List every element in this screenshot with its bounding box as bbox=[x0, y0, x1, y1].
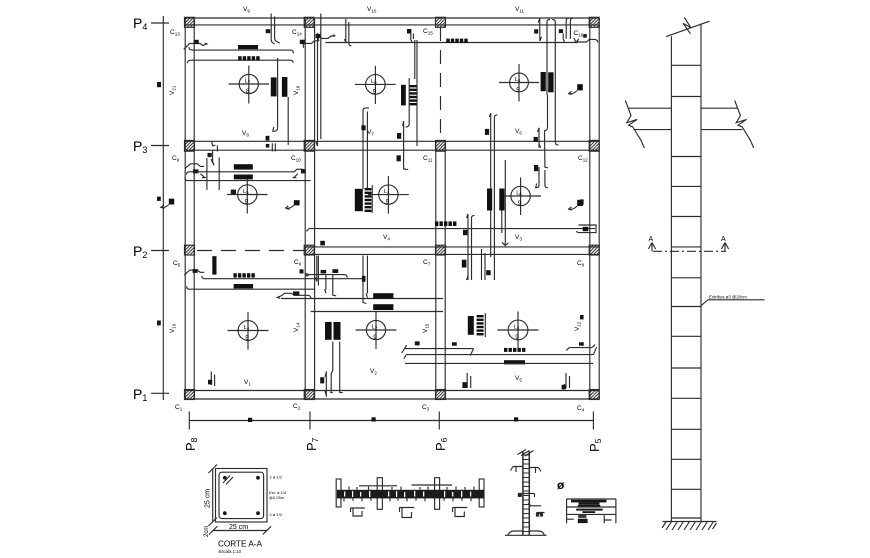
column C11 bbox=[423, 140, 446, 162]
svg-text:V14: V14 bbox=[293, 322, 301, 332]
bay P8-P7/P2-P1 rebar group bbox=[184, 256, 443, 386]
column elevation left chord bbox=[670, 36, 672, 521]
svg-text:8: 8 bbox=[246, 88, 250, 95]
bay P7-P6/P2-P1 rebar group bbox=[300, 241, 444, 397]
corte A-A dimension 25cm vertical bbox=[205, 465, 218, 527]
slab label L5/9 bbox=[227, 176, 268, 214]
column C7 bbox=[423, 245, 446, 266]
svg-text:A: A bbox=[721, 236, 726, 243]
svg-text:L7: L7 bbox=[245, 79, 251, 85]
svg-text:9: 9 bbox=[373, 334, 377, 341]
svg-text:P7: P7 bbox=[304, 437, 320, 451]
column C13 bbox=[170, 17, 195, 36]
beam P1 bottom chord bbox=[185, 398, 600, 400]
svg-text:P5: P5 bbox=[587, 438, 603, 452]
bay P8-P7/P4-P3 rebar group bbox=[184, 14, 321, 147]
slab label L2/9 bbox=[356, 312, 397, 350]
svg-text:@0.05m: @0.05m bbox=[269, 495, 285, 500]
svg-text:2cm: 2cm bbox=[204, 526, 210, 537]
bent bar arrow bbox=[569, 84, 583, 94]
corte A-A cover 2cm bbox=[204, 526, 210, 537]
beam P6 right chord bbox=[444, 141, 446, 399]
bay P8-P7/P3-P2 rebar group bbox=[185, 142, 311, 194]
bent bar arrow V20 position bbox=[161, 199, 174, 209]
grid P6 dashed segment bbox=[440, 27, 442, 141]
beam P5 left chord bbox=[589, 18, 591, 399]
svg-text:A: A bbox=[649, 236, 654, 243]
bay P7-P6/P3-P2 rebar group bbox=[307, 185, 596, 286]
svg-text:C4: C4 bbox=[577, 405, 585, 413]
svg-text:P1: P1 bbox=[133, 386, 147, 403]
stack guide lines above C10 bbox=[363, 108, 369, 189]
svg-text:9: 9 bbox=[373, 88, 377, 95]
svg-text:ø: ø bbox=[557, 478, 565, 492]
grid P2 dashed segment bbox=[197, 250, 304, 252]
corte A-A title bbox=[218, 540, 263, 555]
svg-text:2 ø 1/2: 2 ø 1/2 bbox=[270, 475, 283, 480]
svg-text:C5: C5 bbox=[173, 260, 181, 268]
svg-text:C11: C11 bbox=[423, 155, 433, 163]
svg-text:V1: V1 bbox=[244, 379, 251, 387]
dimension line bottom bbox=[189, 412, 593, 430]
bent bar arrow near C10 bbox=[286, 200, 300, 209]
stirrup note bbox=[701, 295, 764, 306]
cutoff marks above C14 bbox=[266, 29, 271, 33]
column C10 bbox=[291, 140, 314, 162]
svg-text:C14: C14 bbox=[292, 29, 302, 37]
column C9 bbox=[172, 140, 195, 162]
svg-text:L6: L6 bbox=[516, 191, 522, 197]
svg-text:P6: P6 bbox=[433, 437, 449, 451]
svg-text:9: 9 bbox=[515, 334, 519, 341]
ground hatch bbox=[662, 522, 717, 531]
bar schedule detail bbox=[567, 499, 616, 524]
long cutoff lines right of bay bbox=[316, 14, 321, 147]
slab label L8/9 bbox=[355, 66, 396, 104]
svg-text:C1: C1 bbox=[175, 404, 183, 412]
beam P7 right chord bbox=[314, 18, 316, 399]
svg-text:C6: C6 bbox=[294, 259, 302, 267]
column C2 bbox=[293, 390, 314, 411]
stack lines through P2 bbox=[363, 256, 367, 304]
svg-text:L2: L2 bbox=[372, 325, 378, 331]
slab label L4/9 bbox=[368, 176, 409, 214]
rebar marks left edge bbox=[157, 82, 161, 325]
dashed bar mark bbox=[435, 221, 456, 226]
grid line left vertical bbox=[162, 16, 164, 400]
corte A-A section box bbox=[216, 469, 268, 523]
svg-text:C8: C8 bbox=[577, 260, 585, 268]
slab label L4/9 bottom-left bbox=[228, 312, 269, 350]
column C4 bbox=[577, 390, 599, 413]
bay P6-P5/P2-P1 rebar group bbox=[402, 313, 597, 389]
svg-text:9: 9 bbox=[518, 200, 522, 207]
cutoff square left of C15 bbox=[407, 29, 411, 34]
svg-text:9: 9 bbox=[245, 335, 249, 342]
dashed bar mark bbox=[446, 39, 467, 43]
svg-text:V8: V8 bbox=[242, 130, 249, 138]
svg-text:V4: V4 bbox=[383, 234, 390, 242]
column C5 bbox=[173, 245, 195, 267]
beam P1 top chord bbox=[185, 390, 600, 392]
beam P4 bottom chord bbox=[185, 24, 599, 26]
svg-text:P3: P3 bbox=[133, 138, 147, 155]
svg-text:C3: C3 bbox=[422, 404, 430, 412]
svg-text:V6: V6 bbox=[515, 128, 522, 136]
grid label P1 bbox=[133, 386, 169, 403]
svg-text:L4: L4 bbox=[384, 189, 390, 195]
column C6 bbox=[294, 245, 314, 266]
svg-text:C16: C16 bbox=[574, 30, 584, 38]
vertical bar marks bbox=[541, 72, 546, 91]
beam P5 right chord bbox=[598, 18, 600, 399]
column C14 bbox=[292, 17, 314, 36]
bottom bars bbox=[325, 322, 332, 340]
column C8 bbox=[577, 245, 599, 267]
grid label P2 bbox=[133, 243, 169, 260]
rebar line b bbox=[187, 60, 293, 63]
svg-text:L3: L3 bbox=[514, 325, 520, 331]
beam elevation detail bbox=[336, 478, 484, 518]
grid label P3 bbox=[133, 138, 169, 155]
svg-text:L4: L4 bbox=[244, 325, 250, 331]
column C16 bbox=[574, 17, 600, 37]
svg-text:V15: V15 bbox=[422, 323, 430, 333]
beam P8 left chord bbox=[184, 18, 186, 399]
solid bar mark bbox=[238, 45, 258, 49]
double arrow mark left of C16 bbox=[534, 29, 538, 33]
slab label L3/9 bbox=[498, 312, 539, 350]
svg-text:P2: P2 bbox=[133, 243, 147, 260]
svg-text:V19: V19 bbox=[169, 323, 177, 333]
svg-text:C13: C13 bbox=[170, 29, 180, 37]
long rebar line across bays bbox=[326, 38, 579, 43]
svg-text:P8: P8 bbox=[183, 437, 199, 451]
corte A-A rebar notes bbox=[269, 475, 287, 518]
svg-text:V11: V11 bbox=[515, 6, 525, 14]
bay P7-P6/P4-P3 rebar group bbox=[300, 19, 579, 189]
svg-text:25 cm: 25 cm bbox=[229, 524, 248, 531]
grid label P4 bbox=[133, 15, 169, 32]
beam P3 top chord bbox=[185, 140, 599, 142]
hook line above C10 bbox=[272, 58, 277, 131]
beam P4 top chord bbox=[185, 17, 599, 19]
svg-text:L6: L6 bbox=[515, 77, 521, 83]
beam P2 bottom chord bbox=[305, 253, 599, 255]
vertical bar marks bbox=[271, 77, 277, 96]
bay P6-P5/P3-P2 rebar group bbox=[462, 160, 596, 280]
bay P6-P5/P4-P3 rebar group bbox=[446, 18, 598, 280]
svg-text:V2: V2 bbox=[370, 368, 377, 376]
beam P7 left chord bbox=[304, 18, 306, 399]
column elevation top break bbox=[666, 18, 709, 37]
svg-text:V5: V5 bbox=[515, 375, 522, 383]
svg-text:V3: V3 bbox=[515, 234, 522, 242]
column C15 bbox=[423, 17, 446, 35]
svg-text:2 ø 1/2: 2 ø 1/2 bbox=[270, 512, 283, 517]
beam P6 left chord bbox=[435, 141, 437, 399]
hooked verticals near C16 bbox=[547, 19, 555, 95]
corte A-A dimension 25cm horizontal bbox=[209, 524, 271, 535]
svg-text:V7: V7 bbox=[367, 129, 374, 137]
step bar near C16 bbox=[576, 39, 597, 42]
vertical bar mark bbox=[401, 85, 406, 106]
svg-text:L5: L5 bbox=[243, 189, 249, 195]
squares near C16 bbox=[559, 29, 563, 33]
slab label L7/8 bbox=[229, 66, 270, 104]
long top bar line over P2 bbox=[307, 229, 596, 232]
rebar line a bbox=[189, 47, 294, 53]
svg-text:C12: C12 bbox=[578, 155, 588, 163]
cutoff marks near C11 bbox=[397, 133, 401, 139]
column C1 bbox=[175, 390, 195, 412]
svg-text:25 cm: 25 cm bbox=[205, 489, 212, 508]
beam P8 right chord bbox=[193, 18, 195, 399]
column detail vertical bbox=[505, 450, 547, 536]
svg-text:9: 9 bbox=[386, 199, 390, 206]
column elevation right chord bbox=[700, 24, 702, 522]
dashed bar mark bbox=[238, 56, 259, 60]
beam stub right bbox=[701, 101, 754, 149]
beam stub left bbox=[625, 101, 671, 149]
svg-text:P4: P4 bbox=[133, 15, 147, 32]
column C12 bbox=[578, 140, 599, 162]
svg-text:V10: V10 bbox=[367, 6, 377, 14]
svg-text:C10: C10 bbox=[291, 155, 301, 163]
hatched bar mark bbox=[409, 40, 417, 146]
svg-text:C9: C9 bbox=[172, 155, 180, 163]
column elevation stirrup rungs bbox=[671, 65, 701, 518]
svg-text:V9: V9 bbox=[243, 6, 250, 14]
bracket with bar bbox=[576, 225, 596, 233]
bar cutoff hooks right of C14 bbox=[300, 40, 305, 44]
bar cutoff hook TL bbox=[184, 43, 207, 49]
column C3 bbox=[422, 390, 446, 412]
beam P2 top chord bbox=[305, 246, 599, 248]
svg-text:C2: C2 bbox=[293, 403, 301, 411]
svg-text:9: 9 bbox=[245, 199, 249, 206]
svg-text:C15: C15 bbox=[423, 28, 433, 36]
beam P3 bottom chord bbox=[185, 149, 599, 151]
slab label L6/9 right bbox=[500, 178, 541, 216]
svg-text:V21: V21 bbox=[169, 85, 177, 95]
svg-text:Escala 1:10: Escala 1:10 bbox=[219, 549, 242, 554]
svg-text:9: 9 bbox=[516, 87, 520, 94]
svg-text:V12: V12 bbox=[574, 321, 582, 331]
svg-text:V16: V16 bbox=[293, 85, 301, 95]
step bar below C6 bbox=[300, 269, 304, 273]
svg-text:CORTE A-A: CORTE A-A bbox=[218, 540, 263, 549]
section cut A-A bbox=[648, 236, 728, 251]
cutoff marks above C11 bbox=[489, 113, 501, 280]
svg-text:Estribos ø3 @20cm: Estribos ø3 @20cm bbox=[709, 295, 747, 300]
svg-text:L8: L8 bbox=[371, 79, 377, 85]
slab label L6/9 bbox=[499, 64, 539, 102]
svg-text:C7: C7 bbox=[423, 259, 431, 267]
